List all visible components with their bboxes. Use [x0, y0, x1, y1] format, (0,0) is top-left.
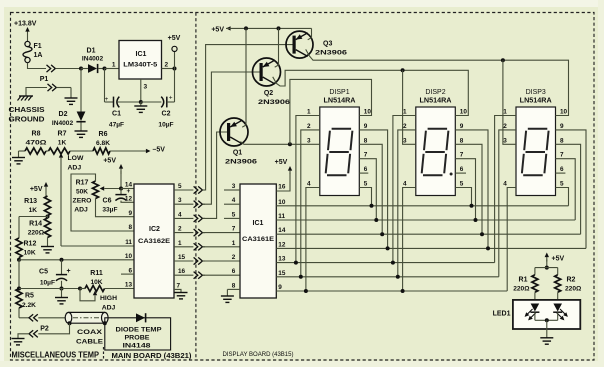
- Q3 emitter wire: [308, 28, 312, 39]
- node coax shield left: [68, 321, 72, 325]
- svg-text:5: 5: [232, 211, 236, 218]
- wire digit drive row1 to Q3 base: [203, 45, 294, 190]
- svg-text:DISPLAY BOARD (43B15): DISPLAY BOARD (43B15): [223, 351, 294, 358]
- coax cable: [69, 312, 105, 323]
- svg-text:9: 9: [364, 123, 368, 130]
- svg-text:1: 1: [112, 62, 116, 69]
- DISP3 pin9 to row4 end: [556, 130, 587, 249]
- IC2 right pin stubs: [174, 189, 193, 191]
- node C5 bottom: [60, 287, 64, 291]
- svg-text:14: 14: [125, 182, 133, 189]
- svg-text:+: +: [105, 96, 109, 103]
- svg-text:10K: 10K: [24, 250, 36, 257]
- DISP1 pin4 to row7: [306, 188, 320, 292]
- svg-text:9: 9: [278, 284, 282, 291]
- LED1 box: [513, 300, 580, 329]
- svg-text:IN4002: IN4002: [52, 120, 74, 127]
- svg-text:Q1: Q1: [233, 150, 242, 157]
- svg-text:HIGH: HIGH: [100, 295, 117, 302]
- svg-text:1: 1: [503, 109, 507, 116]
- wire fuse to P1: [28, 63, 47, 69]
- diode D1 IN4002: [81, 68, 88, 70]
- svg-text:+: +: [169, 95, 173, 102]
- R17 wiper arrow: [100, 186, 105, 190]
- Q3 collector to DISP3: [306, 49, 569, 115]
- node Q1 collector riser: [288, 142, 292, 146]
- svg-text:ADJ: ADJ: [74, 207, 88, 214]
- svg-text:13: 13: [278, 256, 286, 263]
- svg-text:15: 15: [178, 254, 186, 261]
- DISP1 pin8 to row3: [359, 144, 382, 234]
- probe diode IN4148: [136, 313, 145, 322]
- node LED supply: [545, 266, 549, 270]
- R17 top loop to IC2 pin8: [71, 174, 134, 231]
- svg-text:6: 6: [232, 268, 236, 275]
- svg-text:11: 11: [125, 239, 132, 246]
- svg-text:C1: C1: [112, 111, 121, 118]
- svg-text:R1: R1: [519, 277, 528, 284]
- svg-text:R13: R13: [24, 198, 37, 205]
- svg-text:4: 4: [307, 181, 311, 188]
- R17 bottom to IC2 pin9: [96, 199, 135, 217]
- svg-text:4: 4: [178, 211, 182, 218]
- svg-text:7: 7: [460, 152, 464, 159]
- svg-text:10: 10: [278, 199, 286, 206]
- svg-text:12: 12: [278, 241, 286, 248]
- ground (P1 return): [70, 88, 72, 99]
- svg-text:16: 16: [178, 268, 186, 275]
- DISP1 pin5 to row1: [359, 188, 371, 206]
- svg-text:CABLE: CABLE: [76, 339, 104, 346]
- svg-text:+5V: +5V: [168, 35, 181, 42]
- svg-text:1: 1: [307, 109, 311, 116]
- svg-text:2: 2: [403, 123, 407, 130]
- svg-text:8: 8: [128, 224, 132, 231]
- svg-text:+: +: [127, 188, 131, 195]
- svg-text:DISP2: DISP2: [425, 89, 445, 96]
- DISP1 pin6 nc stub: [359, 172, 368, 174]
- svg-text:DISP3: DISP3: [526, 89, 546, 96]
- svg-text:3: 3: [232, 183, 236, 190]
- svg-text:10: 10: [560, 109, 568, 116]
- svg-text:12: 12: [125, 196, 133, 203]
- IC1 pin8 ground: [227, 288, 240, 290]
- svg-text:MAIN BOARD (43B21): MAIN BOARD (43B21): [112, 351, 193, 360]
- svg-text:IC1: IC1: [253, 220, 264, 227]
- svg-text:R6: R6: [99, 131, 108, 138]
- svg-text:R2: R2: [567, 277, 576, 284]
- svg-text:–5V: –5V: [153, 147, 166, 154]
- svg-text:R7: R7: [58, 131, 67, 138]
- wire digit drive row3 to Q1 base: [203, 132, 229, 218]
- board divider dashed line: [195, 13, 197, 360]
- wire R13 node to R12: [19, 216, 48, 218]
- low adj wiper arrow: [59, 153, 63, 158]
- svg-text:2: 2: [503, 123, 507, 130]
- wire to P2: [19, 317, 29, 319]
- DISP3 pin8 to row3 end: [556, 144, 581, 234]
- node C5 tap: [60, 258, 64, 262]
- svg-text:LN514RA: LN514RA: [520, 98, 552, 105]
- node DISP2 pin3 tap: [401, 68, 405, 72]
- svg-text:2N3906: 2N3906: [225, 159, 257, 166]
- svg-text:2: 2: [178, 226, 182, 233]
- LED right: [553, 304, 562, 312]
- DISP3 pin2 to row6 end: [499, 130, 516, 277]
- DISP2 pin4 to row7: [403, 188, 416, 292]
- svg-text:2N3906: 2N3906: [258, 99, 290, 106]
- connector P1 pin (bottom): [48, 84, 52, 91]
- Q1 emitter wire: [242, 28, 246, 127]
- svg-text:+5V: +5V: [275, 159, 288, 166]
- DISP3 pin1 to row5 end: [495, 116, 516, 263]
- segment bus rows from IC1: [276, 205, 568, 207]
- svg-text:8: 8: [560, 137, 564, 144]
- svg-text:1: 1: [403, 109, 407, 116]
- node coax shield right: [103, 321, 107, 325]
- node DISP3 pin3 tap: [501, 58, 505, 62]
- chassis ground symbol: [19, 95, 33, 97]
- svg-text:2: 2: [307, 123, 311, 130]
- DISP2 pin7 to row2: [455, 159, 475, 220]
- DISP2 pin9 to row4: [455, 130, 488, 249]
- svg-text:LED1: LED1: [493, 311, 511, 318]
- svg-text:10: 10: [460, 109, 468, 116]
- svg-text:10K: 10K: [90, 279, 102, 286]
- Q2 emitter wire: [275, 28, 279, 67]
- svg-text:220Ω: 220Ω: [513, 286, 530, 293]
- decoder IC1 CA3161E: [240, 184, 276, 298]
- svg-text:MISCELLANEOUS TEMP: MISCELLANEOUS TEMP: [12, 351, 100, 360]
- capacitor C5 10uF: [61, 260, 63, 275]
- node after D1: [103, 67, 107, 71]
- svg-text:470Ω: 470Ω: [26, 140, 48, 147]
- svg-text:LM340T-5: LM340T-5: [123, 62, 157, 69]
- connector P2 pin (bottom): [29, 330, 33, 337]
- svg-text:33µF: 33µF: [102, 207, 117, 214]
- svg-text:C6: C6: [103, 198, 112, 205]
- node Q1 emitter tap: [244, 26, 248, 30]
- ground (regulator common): [140, 102, 142, 106]
- svg-text:PROBE: PROBE: [125, 335, 151, 342]
- svg-text:9: 9: [128, 210, 132, 217]
- svg-text:11: 11: [278, 213, 285, 220]
- LED left: [531, 304, 540, 312]
- IC2 pin6 nc stub: [121, 273, 134, 275]
- svg-text:LOW: LOW: [68, 155, 84, 162]
- svg-text:9: 9: [460, 123, 464, 130]
- ground (C5): [61, 289, 63, 298]
- svg-text:COAX: COAX: [77, 329, 103, 336]
- svg-text:8: 8: [460, 137, 464, 144]
- op-amp/ADC IC2 CA3162E: [134, 184, 174, 298]
- svg-text:15: 15: [278, 270, 286, 277]
- svg-text:4: 4: [232, 197, 236, 204]
- svg-text:2N3906: 2N3906: [315, 50, 347, 57]
- wire Q1 to DISP1 pin10: [290, 79, 372, 144]
- ground (D2): [75, 130, 88, 132]
- svg-text:C5: C5: [39, 269, 48, 276]
- svg-text:1: 1: [232, 240, 236, 247]
- Q1 collector to DISP1 pin3: [240, 142, 319, 145]
- board interconnect pins: [194, 186, 198, 193]
- connector P2 pin (top): [29, 314, 33, 321]
- svg-text:3: 3: [307, 137, 311, 144]
- svg-text:3: 3: [178, 197, 182, 204]
- svg-text:3: 3: [403, 137, 407, 144]
- ground (R8): [18, 151, 20, 158]
- svg-text:6: 6: [560, 166, 564, 173]
- node: +13.8 junction: [79, 67, 83, 71]
- node R11 left: [78, 287, 82, 291]
- svg-text:5: 5: [560, 181, 564, 188]
- node R13/R14: [46, 215, 50, 219]
- capacitor C1 47uF: [104, 69, 106, 103]
- wire: chassis line to P1 lower pin: [26, 88, 47, 96]
- -5V label: [146, 149, 151, 153]
- DISP2 pin2 to row6: [398, 130, 416, 277]
- capacitor C2 10uF: [141, 101, 162, 103]
- svg-text:6: 6: [460, 166, 464, 173]
- ground (R14): [41, 246, 54, 248]
- node pin14/+5V/wiper: [119, 187, 123, 191]
- DISP1 pin9 to row4: [359, 130, 387, 249]
- svg-text:R14: R14: [29, 221, 42, 228]
- svg-text:14: 14: [278, 227, 286, 234]
- svg-text:1: 1: [178, 240, 182, 247]
- svg-text:10µF: 10µF: [158, 122, 173, 129]
- svg-text:R17: R17: [76, 180, 89, 187]
- connector P1 pin (top): [47, 65, 51, 72]
- LED cathode bus: [534, 312, 536, 320]
- svg-text:+13.8V: +13.8V: [14, 21, 37, 28]
- svg-text:7: 7: [364, 152, 368, 159]
- svg-text:220Ω: 220Ω: [28, 230, 45, 237]
- svg-text:6: 6: [364, 166, 368, 173]
- svg-text:DISP1: DISP1: [329, 89, 349, 96]
- svg-text:R11: R11: [90, 270, 103, 277]
- svg-text:CA3161E: CA3161E: [242, 236, 274, 243]
- svg-text:5: 5: [460, 181, 464, 188]
- divider MISC/MAIN: [103, 347, 105, 360]
- Q2 collector to DISP2: [273, 70, 469, 115]
- DISP3 pin5 to row1 end: [556, 188, 569, 206]
- diode temp probe box IN4148: [105, 318, 171, 350]
- svg-text:10µF: 10µF: [40, 280, 55, 287]
- ground (P2 shield): [18, 334, 29, 339]
- DISP3 pin4 to row7 end: [507, 188, 516, 292]
- transistor Q3 2N3906: [286, 31, 313, 58]
- DISP2 pin5 to row1: [455, 188, 471, 206]
- capacitor C6 33uF: [120, 189, 122, 195]
- svg-text:13: 13: [125, 282, 133, 289]
- node R5 top: [17, 287, 21, 291]
- svg-text:1K: 1K: [29, 207, 38, 214]
- wire to DISP2 pin3: [403, 70, 416, 144]
- wire shield to P2 lower: [38, 323, 69, 334]
- svg-text:R5: R5: [25, 293, 34, 300]
- svg-text:16: 16: [278, 184, 286, 191]
- svg-text:D1: D1: [87, 48, 96, 55]
- DISP2 pin8 to row3: [455, 144, 482, 234]
- svg-text:7: 7: [232, 226, 236, 233]
- regulator pin3 to ground rail: [140, 79, 142, 102]
- DISP3 pin6 nc stub: [556, 172, 566, 174]
- svg-text:47µF: 47µF: [109, 122, 124, 129]
- svg-text:8: 8: [364, 137, 368, 144]
- svg-text:R12: R12: [24, 241, 37, 248]
- svg-text:+5V: +5V: [103, 158, 116, 165]
- svg-text:GROUND: GROUND: [9, 117, 45, 124]
- low adj wiper to IC2 pin11: [61, 245, 134, 247]
- transistor Q1 2N3906: [220, 118, 248, 146]
- svg-text:5: 5: [178, 183, 182, 190]
- svg-text:+5V: +5V: [552, 256, 565, 263]
- svg-text:LN514RA: LN514RA: [420, 98, 452, 105]
- IC1 nc stubs pins 3,4,5: [224, 189, 240, 191]
- svg-text:7: 7: [560, 152, 564, 159]
- svg-text:3: 3: [503, 137, 507, 144]
- svg-text:+5V: +5V: [30, 186, 43, 193]
- DISP1 pin2 to row6: [301, 130, 320, 277]
- svg-text:CHASSIS: CHASSIS: [9, 107, 45, 114]
- svg-text:3: 3: [144, 84, 148, 91]
- svg-text:6.8K: 6.8K: [96, 140, 110, 147]
- high adj wiper: [93, 291, 97, 296]
- svg-text:ZERO: ZERO: [73, 198, 92, 205]
- svg-text:1K: 1K: [58, 140, 67, 147]
- svg-text:F1: F1: [34, 43, 42, 50]
- svg-text:DIODE TEMP: DIODE TEMP: [116, 327, 163, 334]
- svg-text:9: 9: [560, 123, 564, 130]
- svg-text:50K: 50K: [76, 189, 88, 196]
- svg-text:IC1: IC1: [136, 51, 147, 58]
- svg-text:+: +: [67, 268, 71, 275]
- diode D2 IN4002 (to ground): [80, 69, 82, 112]
- svg-text:IC2: IC2: [149, 226, 160, 233]
- svg-text:Q2: Q2: [264, 90, 273, 97]
- svg-text:+5V: +5V: [211, 26, 224, 33]
- svg-text:5: 5: [364, 181, 368, 188]
- svg-text:7: 7: [177, 282, 181, 289]
- svg-text:ADJ: ADJ: [102, 305, 116, 312]
- svg-text:C2: C2: [162, 111, 171, 118]
- svg-text:LN514RA: LN514RA: [324, 98, 356, 105]
- svg-text:4: 4: [503, 181, 507, 188]
- svg-text:P1: P1: [40, 76, 49, 83]
- svg-text:CA3162E: CA3162E: [138, 238, 170, 245]
- svg-text:IN4148: IN4148: [123, 342, 152, 349]
- regulator IC1 LM340T-5: [119, 41, 162, 80]
- svg-text:R8: R8: [32, 131, 41, 138]
- ground (LED): [546, 320, 548, 338]
- svg-text:10: 10: [125, 253, 133, 260]
- DISP1 pin7 to row2: [359, 159, 376, 220]
- wire to DISP3 pin3: [503, 60, 516, 144]
- svg-text:IN4002: IN4002: [82, 56, 104, 63]
- svg-text:6: 6: [128, 267, 132, 274]
- svg-text:2.2K: 2.2K: [22, 302, 36, 309]
- node bus to IC2 pin10: [17, 258, 21, 262]
- svg-text:10: 10: [364, 109, 372, 116]
- svg-text:4: 4: [403, 181, 407, 188]
- svg-text:2: 2: [165, 62, 169, 69]
- svg-text:220Ω: 220Ω: [565, 286, 582, 293]
- wire R12 chain down: [18, 260, 20, 289]
- svg-text:Q3: Q3: [323, 41, 332, 48]
- wire R11 bus: [62, 288, 81, 290]
- wire digit drive row2 to Q2 base: [203, 72, 261, 204]
- svg-text:1A: 1A: [34, 52, 43, 59]
- svg-text:P2: P2: [40, 326, 49, 333]
- wires rows 4-7 to IC1: [203, 232, 240, 234]
- svg-text:2: 2: [232, 254, 236, 261]
- transistor Q2 2N3906: [253, 58, 281, 86]
- fuse F1: [25, 41, 30, 46]
- DISP1 pin1 to row5: [296, 116, 320, 263]
- DISP2 pin1 to row5: [393, 116, 416, 263]
- svg-text:8: 8: [232, 282, 236, 289]
- node Q2 emitter tap: [277, 26, 281, 30]
- svg-text:ADJ: ADJ: [68, 165, 82, 172]
- DISP2 pin6 nc stub: [455, 172, 466, 174]
- DISP3 pin7 to row2 end: [556, 159, 576, 220]
- +5V output terminal: [162, 68, 175, 70]
- svg-text:D2: D2: [59, 111, 68, 118]
